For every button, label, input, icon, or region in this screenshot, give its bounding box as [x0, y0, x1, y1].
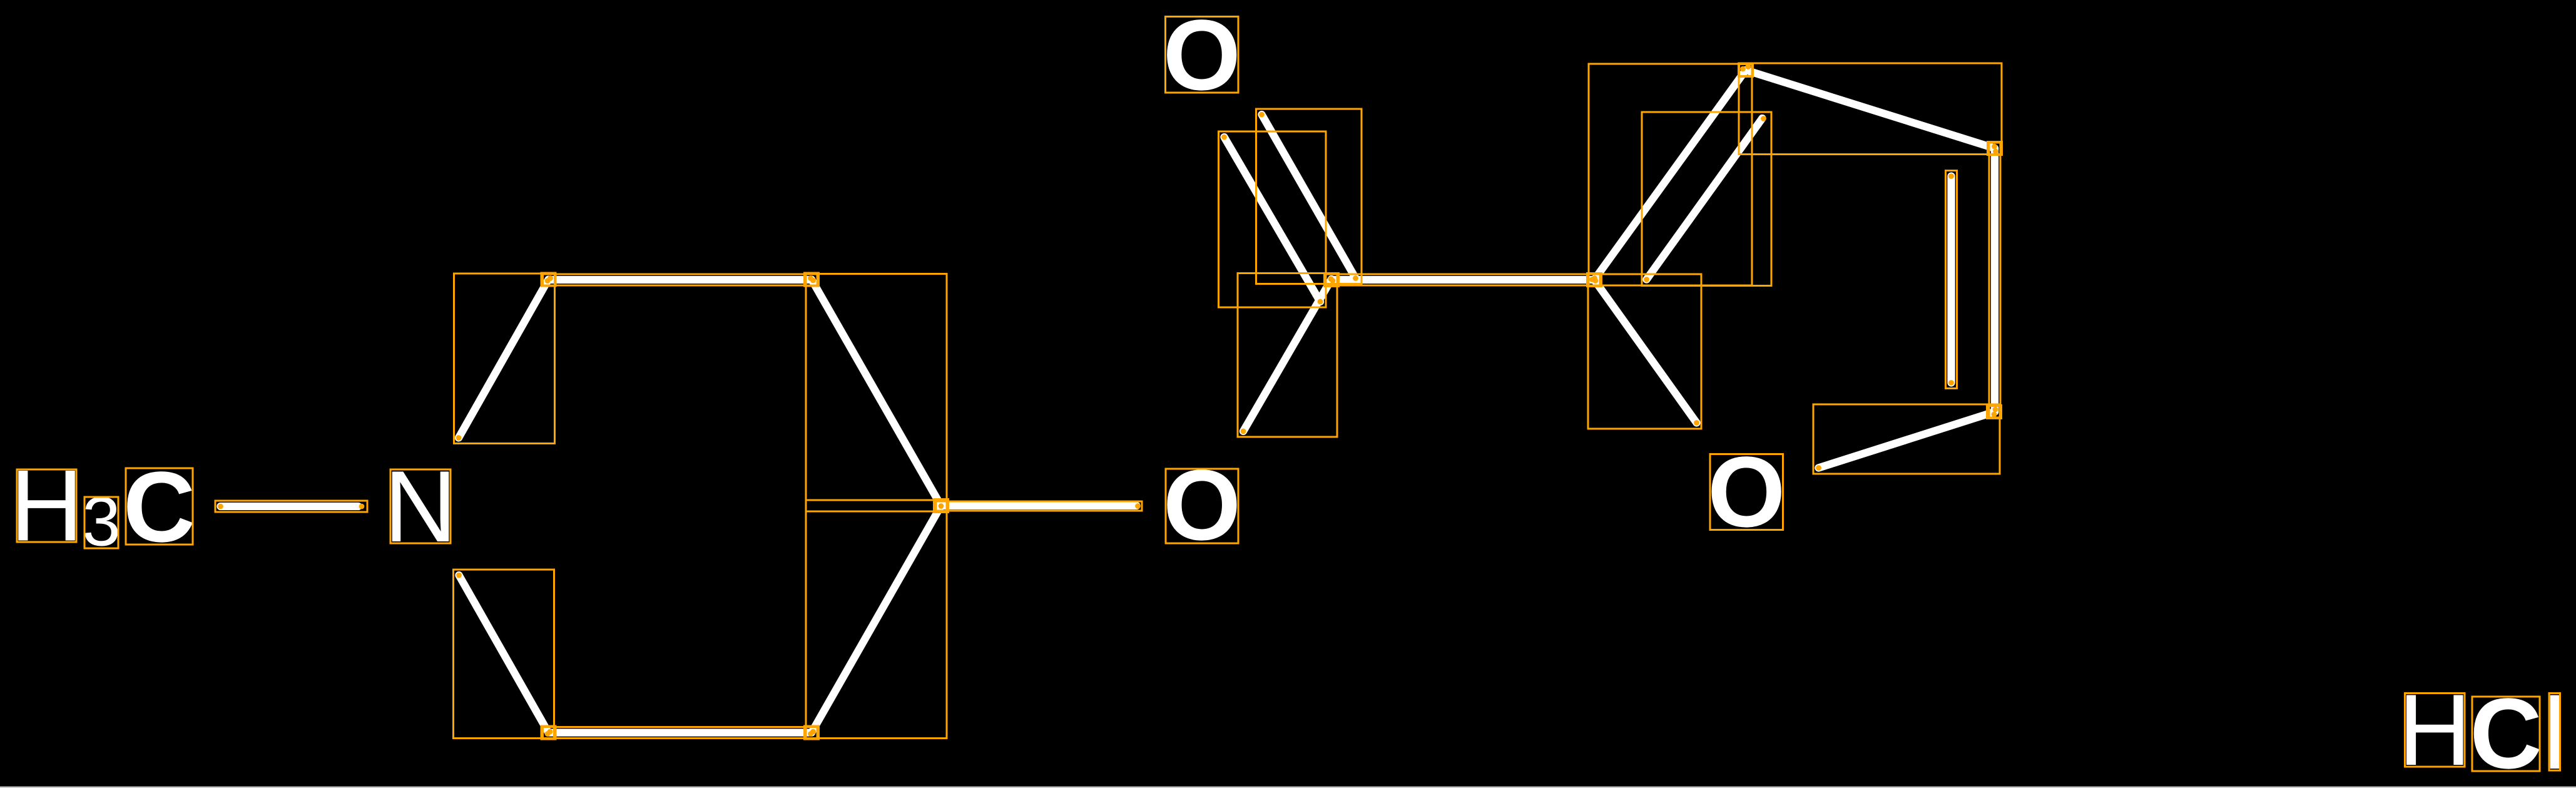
svg-text:O: O	[1708, 436, 1785, 548]
svg-text:H: H	[10, 449, 83, 563]
svg-text:H: H	[2398, 673, 2472, 787]
svg-text:N: N	[384, 450, 457, 563]
